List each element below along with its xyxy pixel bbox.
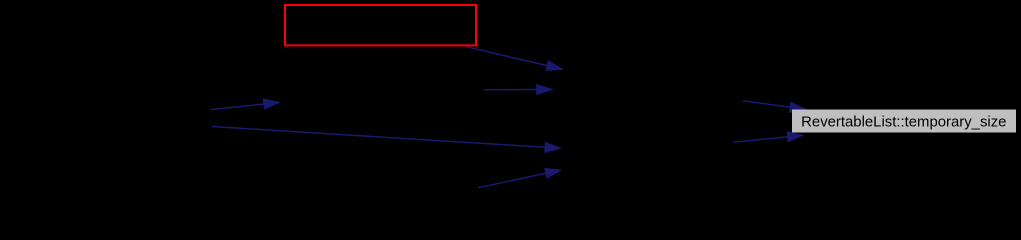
edge a : red box to hidden node (466, 47, 548, 66)
svg-text:RevertableList::temporary_size: RevertableList::temporary_size (801, 114, 1006, 130)
edge b : horizontal into hidden node (484, 89, 538, 91)
edge g : into grey box bottom-left (733, 137, 789, 143)
edge e : lower diagonal (478, 173, 547, 188)
edge f : into grey box top-left (743, 101, 792, 108)
edge d : long diagonal (212, 127, 547, 148)
node RevertableList::temporary_size (grey box) (793, 110, 1016, 132)
node current (red outlined box) (285, 5, 476, 45)
edge c : short left arrow (211, 104, 266, 110)
